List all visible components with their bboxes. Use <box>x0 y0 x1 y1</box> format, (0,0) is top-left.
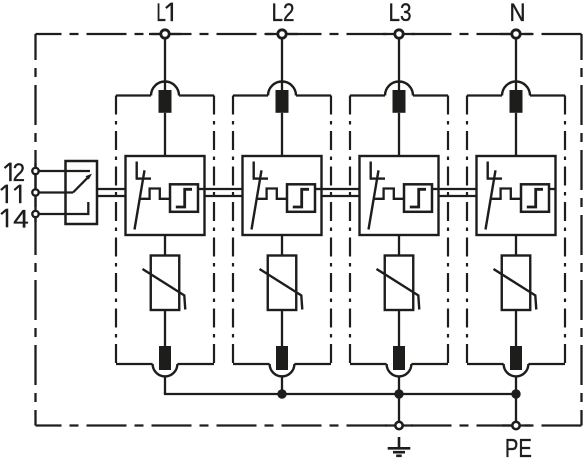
terminal block bottom N (black) <box>510 346 522 370</box>
varistor diagonal L1 <box>143 269 186 310</box>
spark gap switch symbol L3 <box>369 162 386 230</box>
svg-text:L2: L2 <box>272 0 295 27</box>
node 11 label <box>6 185 9 204</box>
switch blade arrowhead <box>86 174 93 180</box>
wire bottom contact to PE bus N <box>515 376 517 394</box>
varistor diagonal N <box>494 269 537 310</box>
wire bottom contact to PE bus L1 <box>164 376 166 394</box>
varistor N <box>502 256 531 311</box>
wire spark gap to varistor N <box>515 235 517 256</box>
terminal 11 circle <box>32 189 38 195</box>
node 12 label <box>9 163 12 182</box>
module L2 enclosure (solid top/bottom, dash-dot sides) <box>233 96 331 365</box>
junction L3 to PE bus <box>394 389 403 398</box>
trigger pulse line N <box>491 189 521 199</box>
wire remote-signalling double bus (lower) <box>97 195 477 197</box>
svg-text:N: N <box>510 0 526 27</box>
module L3 enclosure (solid top/bottom, dash-dot sides) <box>350 96 448 365</box>
wire top contact to spark gap L3 <box>398 113 400 156</box>
plug-in contact arch bottom L3 <box>387 364 412 376</box>
wire top contact to spark gap N <box>515 113 517 156</box>
wire trigger box to spark gap box edge L1 <box>198 188 205 190</box>
terminal PE circle <box>512 422 519 429</box>
changeover switch blade <box>73 176 89 192</box>
wire spark gap to varistor L2 <box>281 235 283 256</box>
wire bus to PE terminal <box>515 394 517 421</box>
spark gap module box N <box>477 156 556 235</box>
wire L2 terminal to top contact <box>281 39 283 91</box>
spark gap module box L1 <box>126 156 205 235</box>
svg-text:L3: L3 <box>389 0 412 27</box>
spark gap switch symbol N <box>486 162 503 230</box>
terminal block top L2 (black) <box>276 90 289 113</box>
plug-in contact arch bottom L2 <box>270 364 295 376</box>
terminal block top N (black) <box>510 90 523 113</box>
plug-in contact arch top L2 <box>268 82 296 96</box>
junction N to PE bus <box>511 389 520 398</box>
spark gap module box L3 <box>360 156 439 235</box>
trigger box L3 <box>404 184 432 212</box>
wire remote-signalling double bus (upper) <box>97 188 477 190</box>
trigger step symbol L2 <box>293 189 309 207</box>
plug-in contact arch top L3 <box>385 82 413 96</box>
terminal L2 circle <box>278 30 286 38</box>
module N enclosure (solid top/bottom, dash-dot sides) <box>467 96 565 365</box>
terminal L1 circle <box>161 30 169 38</box>
wire varistor to bottom contact L3 <box>398 310 400 346</box>
wire varistor to bottom contact L1 <box>164 310 166 346</box>
wire bottom contact to PE bus L3 <box>398 376 400 394</box>
svg-text:L: L <box>156 0 166 27</box>
outer dashed enclosure border <box>36 34 582 426</box>
junction L2 to PE bus <box>277 389 286 398</box>
wire varistor to bottom contact L2 <box>281 310 283 346</box>
wire L3 terminal to top contact <box>398 39 400 91</box>
wire trigger box to spark gap box edge L2 <box>315 188 322 190</box>
trigger box N <box>521 184 549 212</box>
wire PE bus <box>164 393 516 395</box>
trigger box L2 <box>287 184 315 212</box>
wire N terminal to top contact <box>515 39 517 91</box>
wire top contact to spark gap L2 <box>281 113 283 156</box>
spark gap switch symbol L2 <box>252 162 269 230</box>
spark gap switch symbol L1 <box>135 162 152 230</box>
remote signalling contact box <box>66 161 98 224</box>
spark gap module box L2 <box>243 156 322 235</box>
plug-in contact arch bottom N <box>504 364 529 376</box>
varistor diagonal L2 <box>260 269 303 310</box>
terminal 14 circle <box>32 211 38 217</box>
terminal ground circle <box>395 422 402 429</box>
trigger pulse line L1 <box>140 189 170 199</box>
wire terminal 14 to contact <box>39 202 89 214</box>
svg-text:2: 2 <box>13 159 25 187</box>
wire top border solid segments at phase terminals <box>36 34 533 426</box>
terminal block bottom L1 (black) <box>159 346 171 370</box>
trigger pulse line L2 <box>257 189 287 199</box>
varistor L1 <box>151 256 180 311</box>
wire trigger box to spark gap box edge N <box>549 188 556 190</box>
wire terminal 12 to contact <box>39 170 90 172</box>
varistor L2 <box>268 256 297 311</box>
wire varistor to bottom contact N <box>515 310 517 346</box>
terminal block bottom L2 (black) <box>276 346 288 370</box>
plug-in contact arch top N <box>502 82 530 96</box>
trigger step symbol L1 <box>176 189 192 207</box>
varistor diagonal L3 <box>377 269 420 310</box>
wire spark gap to varistor L3 <box>398 235 400 256</box>
module L1 enclosure (solid top/bottom, dash-dot sides) <box>116 96 214 365</box>
terminal block top L3 (black) <box>393 90 406 113</box>
varistor L3 <box>385 256 414 311</box>
trigger box L1 <box>170 184 198 212</box>
trigger pulse line L3 <box>374 189 404 199</box>
wire spark gap to varistor L1 <box>164 235 166 256</box>
wire L1 terminal to top contact <box>164 39 166 91</box>
wire bottom contact to PE bus L2 <box>281 376 283 394</box>
terminal N circle <box>512 30 520 38</box>
node 14 label <box>6 209 9 228</box>
terminal L3 circle <box>395 30 403 38</box>
terminal 12 circle <box>32 168 38 174</box>
svg-text:PE: PE <box>505 433 532 463</box>
wire terminal 11 to contact pivot <box>39 191 73 193</box>
wire top contact to spark gap L1 <box>164 113 166 156</box>
ground symbol <box>388 437 411 456</box>
svg-text:4: 4 <box>13 205 29 233</box>
trigger step symbol L3 <box>410 189 426 207</box>
trigger step symbol N <box>527 189 543 207</box>
wire trigger box to spark gap box edge L3 <box>432 188 439 190</box>
terminal block bottom L3 (black) <box>393 346 405 370</box>
plug-in contact arch bottom L1 <box>153 364 178 376</box>
terminal block top L1 (black) <box>159 90 172 113</box>
wire bus to ground terminal <box>398 394 400 421</box>
plug-in contact arch top L1 <box>151 82 179 96</box>
